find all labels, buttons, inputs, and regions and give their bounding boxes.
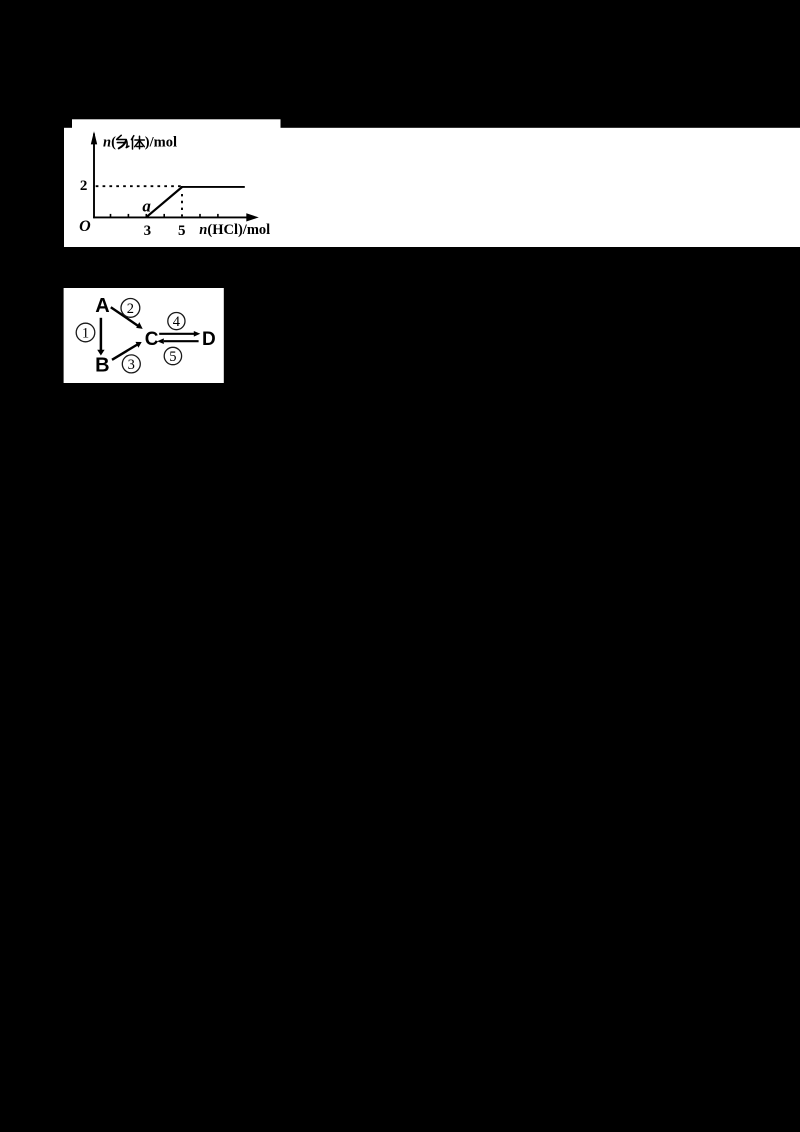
x-axis arrowhead — [246, 213, 258, 221]
svg-text:)/mol: )/mol — [145, 135, 177, 151]
svg-text:n(HCl)/mol: n(HCl)/mol — [199, 222, 270, 238]
svg-text:D: D — [202, 329, 216, 350]
CJK glyph 气 — [117, 135, 129, 148]
arrow 1: A to B vertical — [100, 318, 103, 351]
svg-text:3: 3 — [144, 223, 152, 239]
svg-text:A: A — [95, 295, 109, 317]
svg-text:2: 2 — [127, 301, 134, 317]
svg-text:2: 2 — [80, 178, 88, 194]
rising line a — [146, 187, 182, 217]
x-axis ticks — [111, 214, 218, 218]
dashed line y=2 — [96, 185, 181, 187]
circled 1 — [76, 323, 95, 342]
solid line y=2 — [181, 186, 245, 188]
svg-text:a: a — [142, 196, 151, 215]
circled 5 — [164, 347, 181, 364]
svg-text:1: 1 — [82, 325, 89, 341]
y-axis arrowhead — [91, 131, 97, 144]
svg-text:C: C — [145, 329, 159, 350]
white box 2 (diagram) — [64, 288, 224, 383]
x-axis line — [93, 216, 247, 218]
CJK glyph 体 — [131, 136, 144, 149]
white strip above chart box — [72, 119, 281, 129]
white band (chart box) — [64, 128, 800, 247]
vertical dotted line x=5 — [181, 194, 183, 216]
svg-text:5: 5 — [178, 223, 186, 239]
arrow 5: D to C bottom — [164, 340, 199, 342]
y-axis line — [93, 134, 95, 219]
arrow 4: C to D top — [159, 333, 195, 335]
svg-text:n(: n( — [103, 135, 116, 151]
svg-text:3: 3 — [128, 357, 135, 373]
arrow 3: B to C diagonal — [112, 345, 137, 360]
circled 2 — [121, 299, 140, 318]
circled 3 — [122, 355, 140, 373]
svg-text:O: O — [79, 218, 91, 235]
svg-text:5: 5 — [169, 349, 176, 365]
arrow 2: A to C diagonal — [111, 307, 139, 326]
svg-text:4: 4 — [173, 314, 181, 330]
circled 4 — [168, 313, 185, 330]
svg-text:B: B — [95, 355, 109, 377]
